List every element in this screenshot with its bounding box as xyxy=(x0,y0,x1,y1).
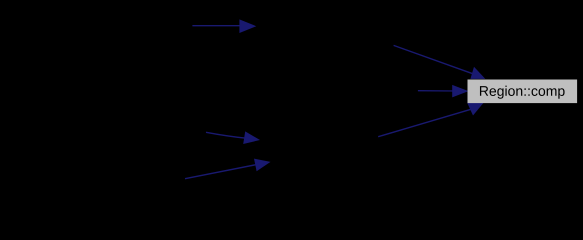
wire edge E5 (middle-left arrow, slight down slope) xyxy=(206,131,260,144)
node Region::comp (current node, gray fill) xyxy=(468,80,578,104)
wire edge E1 (diagonal into node top-left) xyxy=(394,45,486,78)
wire edge E3 (diagonal into node bottom) xyxy=(378,103,483,137)
wire edge E4 (top-left horizontal arrow) xyxy=(192,19,256,33)
wire edge E2 (horizontal into node left side) xyxy=(418,85,469,98)
wire edge E6 (lower-left arrow, up slope) xyxy=(185,159,271,179)
